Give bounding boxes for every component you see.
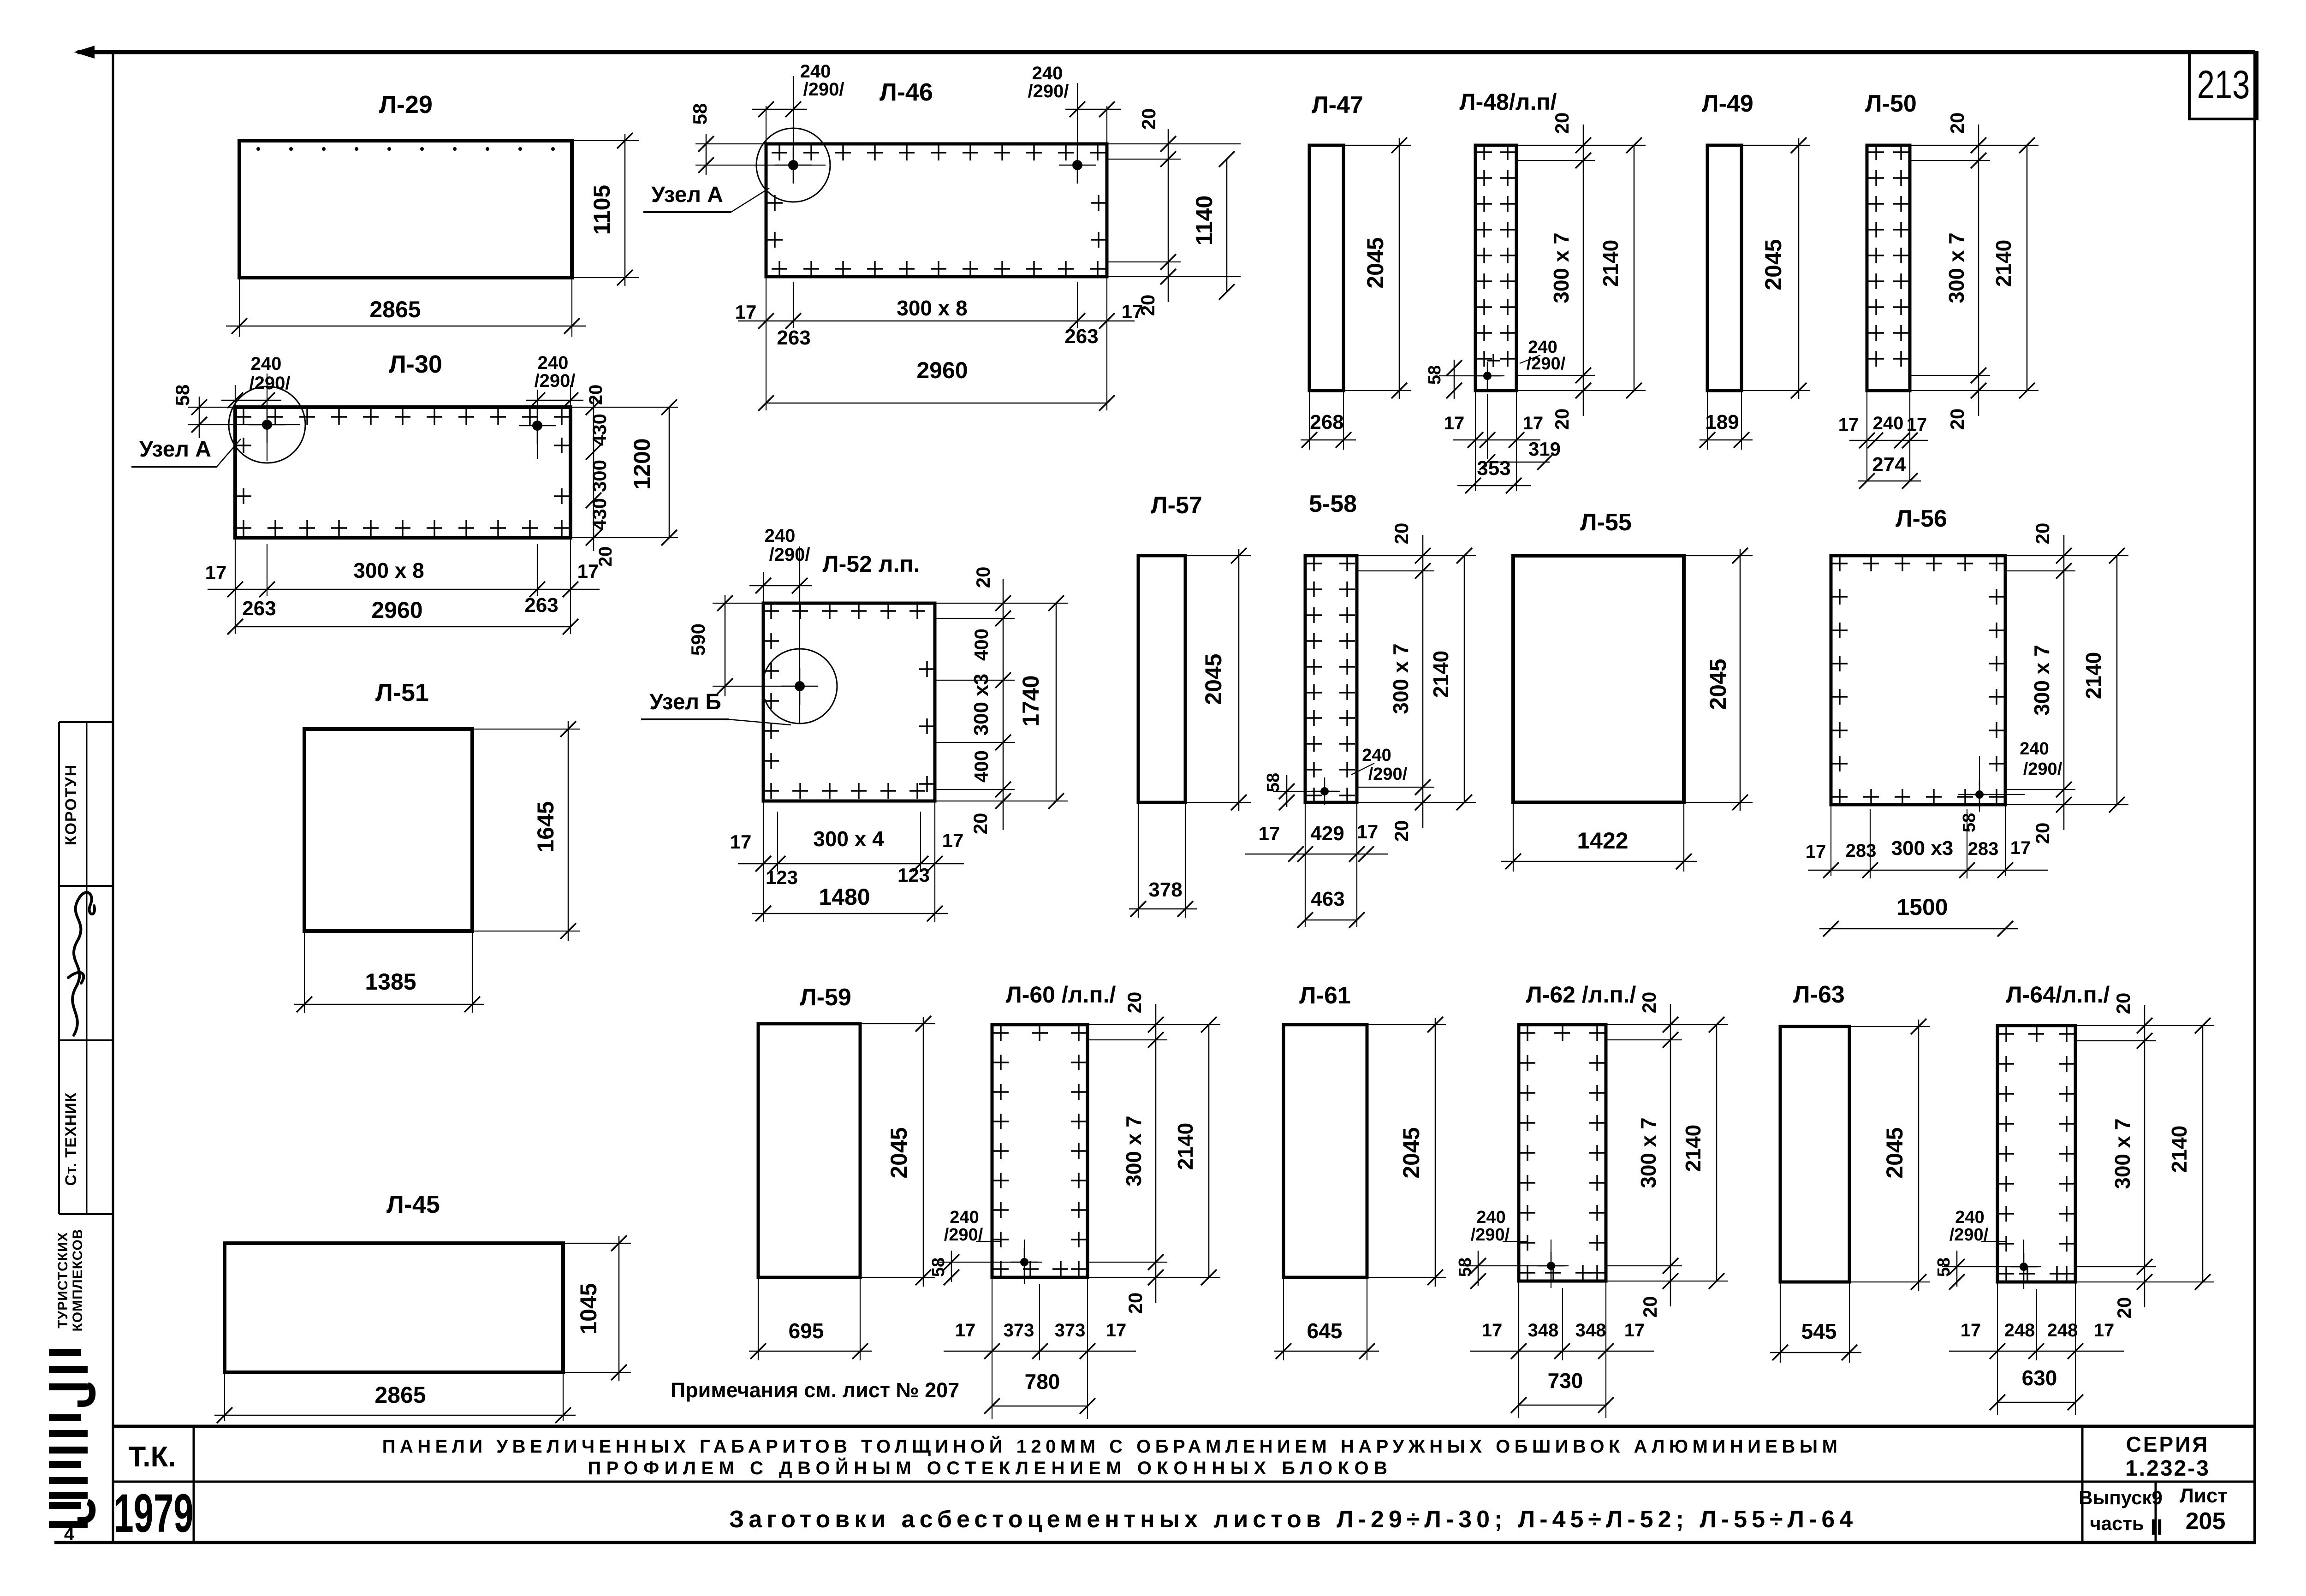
svg-text:17: 17 bbox=[1444, 413, 1465, 433]
svg-text:ПРОФИЛЕМ С ДВОЙНЫМ ОСТЕКЛЕНИЕМ: ПРОФИЛЕМ С ДВОЙНЫМ ОСТЕКЛЕНИЕМ ОКОННЫХ Б… bbox=[588, 1457, 1392, 1478]
svg-text:58: 58 bbox=[689, 103, 711, 125]
svg-text:300: 300 bbox=[588, 460, 610, 492]
svg-text:КОРОТУН: КОРОТУН bbox=[62, 764, 80, 845]
svg-text:463: 463 bbox=[1311, 888, 1344, 910]
svg-text:Л-46: Л-46 bbox=[880, 78, 933, 106]
svg-text:ТУРИСТСКИХ: ТУРИСТСКИХ bbox=[55, 1232, 71, 1328]
svg-text:Л-52 л.п.: Л-52 л.п. bbox=[823, 551, 920, 577]
svg-text:Л-61: Л-61 bbox=[1299, 982, 1351, 1009]
svg-text:590: 590 bbox=[687, 623, 709, 656]
svg-text:240: 240 bbox=[538, 353, 569, 373]
svg-text:429: 429 bbox=[1310, 822, 1344, 845]
svg-text:630: 630 bbox=[2022, 1366, 2057, 1390]
svg-text:1105: 1105 bbox=[589, 185, 615, 235]
svg-text:17: 17 bbox=[1806, 842, 1826, 862]
svg-text:205: 205 bbox=[2186, 1508, 2226, 1535]
svg-text:17: 17 bbox=[735, 301, 757, 323]
svg-text:263: 263 bbox=[1064, 325, 1098, 348]
svg-text:/290/: /290/ bbox=[769, 545, 810, 565]
svg-text:/290/: /290/ bbox=[1527, 354, 1566, 374]
svg-text:17: 17 bbox=[1961, 1320, 1981, 1341]
svg-text:348: 348 bbox=[1575, 1320, 1606, 1341]
svg-text:20: 20 bbox=[1551, 409, 1573, 430]
svg-text:1645: 1645 bbox=[533, 801, 559, 852]
svg-text:123: 123 bbox=[766, 866, 798, 888]
svg-text:58: 58 bbox=[172, 385, 193, 406]
svg-text:695: 695 bbox=[789, 1319, 824, 1343]
svg-text:2865: 2865 bbox=[374, 1382, 426, 1408]
svg-text:Л-48/л.п/: Л-48/л.п/ bbox=[1460, 89, 1557, 115]
svg-text:2140: 2140 bbox=[2167, 1126, 2191, 1173]
svg-text:КОМПЛЕКСОВ: КОМПЛЕКСОВ bbox=[70, 1228, 85, 1331]
svg-text:2045: 2045 bbox=[1705, 659, 1731, 710]
svg-text:58: 58 bbox=[1425, 365, 1444, 385]
svg-text:58: 58 bbox=[1264, 773, 1283, 792]
svg-text:240: 240 bbox=[765, 526, 796, 546]
svg-text:Л-57: Л-57 bbox=[1151, 492, 1202, 519]
svg-text:240: 240 bbox=[950, 1208, 979, 1227]
svg-text:300 х 7: 300 х 7 bbox=[1549, 232, 1573, 303]
svg-text:2140: 2140 bbox=[1599, 240, 1623, 287]
svg-text:/290/: /290/ bbox=[535, 371, 576, 391]
svg-text:20: 20 bbox=[1946, 409, 1968, 430]
svg-text:2960: 2960 bbox=[916, 357, 968, 383]
svg-text:1740: 1740 bbox=[1018, 675, 1044, 726]
svg-text:/290/: /290/ bbox=[1028, 81, 1069, 101]
svg-text:263: 263 bbox=[524, 594, 558, 617]
svg-text:2045: 2045 bbox=[1760, 239, 1786, 290]
svg-text:Узел А: Узел А bbox=[139, 437, 211, 462]
svg-text:20: 20 bbox=[1123, 992, 1145, 1014]
svg-text:Л-30: Л-30 bbox=[389, 350, 442, 378]
svg-text:Заготовки асбестоцементных лис: Заготовки асбестоцементных листов Л-29÷Л… bbox=[729, 1506, 1857, 1533]
svg-text:5-58: 5-58 bbox=[1309, 491, 1357, 517]
svg-text:645: 645 bbox=[1307, 1319, 1343, 1343]
svg-text:248: 248 bbox=[2004, 1320, 2035, 1341]
svg-text:17: 17 bbox=[1106, 1320, 1127, 1341]
svg-text:2140: 2140 bbox=[2081, 652, 2105, 699]
svg-text:Выпуск9: Выпуск9 bbox=[2079, 1487, 2163, 1508]
svg-text:300 х 8: 300 х 8 bbox=[897, 296, 967, 320]
svg-text:20: 20 bbox=[595, 546, 616, 567]
svg-text:1500: 1500 bbox=[1896, 894, 1948, 920]
svg-text:58: 58 bbox=[1960, 813, 1979, 832]
svg-text:Л-56: Л-56 bbox=[1896, 505, 1947, 532]
svg-text:20: 20 bbox=[2112, 993, 2134, 1015]
svg-text:268: 268 bbox=[1310, 411, 1343, 433]
svg-text:263: 263 bbox=[777, 326, 810, 349]
svg-text:17: 17 bbox=[1907, 415, 1927, 435]
svg-text:213: 213 bbox=[2197, 63, 2250, 107]
svg-text:300 х 7: 300 х 7 bbox=[1122, 1115, 1146, 1186]
svg-text:1480: 1480 bbox=[819, 884, 870, 910]
svg-text:Ст. ТЕХНИК: Ст. ТЕХНИК bbox=[62, 1092, 80, 1186]
svg-text:17: 17 bbox=[1624, 1320, 1645, 1341]
svg-text:20: 20 bbox=[1391, 820, 1412, 842]
svg-text:1979: 1979 bbox=[113, 1483, 193, 1544]
svg-text:2140: 2140 bbox=[1173, 1123, 1197, 1170]
svg-text:Лист: Лист bbox=[2180, 1484, 2228, 1507]
svg-text:240: 240 bbox=[251, 354, 282, 374]
svg-text:Л-45: Л-45 bbox=[386, 1191, 440, 1218]
svg-text:17: 17 bbox=[205, 562, 227, 583]
svg-text:283: 283 bbox=[1968, 839, 1999, 859]
svg-text:17: 17 bbox=[1523, 413, 1544, 433]
svg-text:240: 240 bbox=[1476, 1208, 1505, 1227]
svg-text:Л-49: Л-49 bbox=[1702, 90, 1753, 117]
svg-text:17: 17 bbox=[1838, 415, 1859, 435]
svg-text:17: 17 bbox=[2094, 1320, 2115, 1341]
svg-text:2140: 2140 bbox=[1681, 1125, 1705, 1172]
svg-text:20: 20 bbox=[972, 567, 994, 588]
svg-text:1422: 1422 bbox=[1577, 828, 1628, 854]
svg-text:Примечания см. лист № 207: Примечания см. лист № 207 bbox=[671, 1378, 959, 1402]
svg-text:2140: 2140 bbox=[1429, 651, 1453, 698]
svg-text:1200: 1200 bbox=[629, 438, 655, 489]
svg-text:/290/: /290/ bbox=[803, 79, 844, 100]
svg-text:300 х 7: 300 х 7 bbox=[2030, 645, 2054, 715]
svg-text:1.232-3: 1.232-3 bbox=[2125, 1456, 2210, 1481]
svg-text:ПАНЕЛИ УВЕЛИЧЕННЫХ ГАБАРИТОВ Т: ПАНЕЛИ УВЕЛИЧЕННЫХ ГАБАРИТОВ ТОЛЩИНОЙ 12… bbox=[382, 1436, 1842, 1457]
svg-text:17: 17 bbox=[1259, 823, 1280, 844]
svg-text:2045: 2045 bbox=[886, 1127, 912, 1178]
svg-text:373: 373 bbox=[1055, 1320, 1086, 1341]
svg-text:20: 20 bbox=[586, 385, 606, 405]
svg-text:17: 17 bbox=[1482, 1320, 1503, 1341]
svg-text:1045: 1045 bbox=[576, 1283, 601, 1334]
svg-text:Л-55: Л-55 bbox=[1580, 509, 1632, 536]
svg-text:780: 780 bbox=[1025, 1370, 1060, 1394]
svg-text:248: 248 bbox=[2047, 1320, 2078, 1341]
svg-text:1385: 1385 bbox=[365, 969, 416, 995]
svg-text:/290/: /290/ bbox=[1368, 765, 1408, 784]
svg-text:240: 240 bbox=[1955, 1208, 1984, 1227]
svg-text:2045: 2045 bbox=[1398, 1127, 1424, 1178]
svg-text:274: 274 bbox=[1872, 453, 1906, 476]
svg-text:189: 189 bbox=[1705, 411, 1739, 433]
svg-text:17: 17 bbox=[730, 831, 752, 853]
svg-text:2865: 2865 bbox=[369, 297, 421, 322]
svg-text:СЕРИЯ: СЕРИЯ bbox=[2126, 1432, 2210, 1456]
svg-text:Л-50: Л-50 bbox=[1865, 90, 1917, 117]
svg-text:400: 400 bbox=[970, 750, 992, 783]
svg-text:20: 20 bbox=[1391, 523, 1412, 545]
svg-text:2045: 2045 bbox=[1882, 1127, 1908, 1178]
svg-text:300 х 8: 300 х 8 bbox=[353, 558, 424, 582]
svg-text:17: 17 bbox=[1357, 821, 1379, 842]
svg-text:20: 20 bbox=[1138, 108, 1159, 130]
svg-text:2045: 2045 bbox=[1362, 237, 1388, 288]
svg-text:58: 58 bbox=[1456, 1258, 1475, 1277]
svg-text:Узел Б: Узел Б bbox=[649, 690, 721, 714]
svg-text:20: 20 bbox=[2032, 523, 2053, 545]
svg-text:17: 17 bbox=[955, 1320, 976, 1341]
svg-text:353: 353 bbox=[1477, 457, 1510, 480]
svg-text:Л-29: Л-29 bbox=[379, 91, 433, 119]
svg-text:300 х 7: 300 х 7 bbox=[1636, 1117, 1660, 1188]
svg-text:2045: 2045 bbox=[1201, 653, 1226, 705]
svg-text:20: 20 bbox=[1124, 1293, 1146, 1314]
svg-text:1140: 1140 bbox=[1191, 196, 1217, 245]
svg-text:430: 430 bbox=[588, 414, 610, 446]
svg-text:123: 123 bbox=[897, 864, 930, 886]
svg-text:319: 319 bbox=[1528, 438, 1561, 460]
svg-text:Т.К.: Т.К. bbox=[128, 1441, 176, 1473]
svg-text:20: 20 bbox=[2032, 823, 2053, 844]
svg-text:20: 20 bbox=[1638, 992, 1660, 1014]
svg-text:240: 240 bbox=[800, 61, 831, 82]
svg-text:240: 240 bbox=[2020, 739, 2049, 759]
svg-text:II: II bbox=[2151, 1515, 2163, 1540]
svg-text:/290/: /290/ bbox=[2023, 759, 2062, 779]
svg-text:240: 240 bbox=[1032, 63, 1063, 83]
svg-text:20: 20 bbox=[969, 813, 991, 835]
svg-text:Л-59: Л-59 bbox=[800, 984, 851, 1011]
svg-text:300 х3: 300 х3 bbox=[1891, 837, 1954, 860]
svg-text:4: 4 bbox=[64, 1524, 75, 1544]
svg-text:20: 20 bbox=[1639, 1296, 1661, 1318]
svg-text:часть: часть bbox=[2090, 1513, 2144, 1534]
svg-text:Л-60 /л.п./: Л-60 /л.п./ bbox=[1006, 982, 1116, 1008]
svg-text:20: 20 bbox=[2113, 1297, 2135, 1319]
svg-text:300 х3: 300 х3 bbox=[970, 674, 993, 736]
svg-text:300 х 7: 300 х 7 bbox=[2110, 1118, 2134, 1189]
svg-text:400: 400 bbox=[970, 629, 992, 661]
svg-text:Л-64/л.п./: Л-64/л.п./ bbox=[2006, 982, 2110, 1008]
svg-text:300 х 4: 300 х 4 bbox=[813, 827, 884, 851]
svg-text:240: 240 bbox=[1873, 413, 1904, 433]
svg-text:300 х 7: 300 х 7 bbox=[1944, 232, 1968, 303]
svg-text:283: 283 bbox=[1846, 841, 1877, 861]
svg-text:545: 545 bbox=[1801, 1319, 1837, 1343]
svg-text:/290/: /290/ bbox=[250, 373, 291, 393]
svg-text:263: 263 bbox=[242, 597, 276, 620]
svg-text:373: 373 bbox=[1004, 1320, 1034, 1341]
svg-text:300 х 7: 300 х 7 bbox=[1389, 643, 1413, 714]
svg-text:348: 348 bbox=[1528, 1320, 1559, 1341]
svg-text:240: 240 bbox=[1362, 746, 1391, 765]
svg-text:20: 20 bbox=[1137, 295, 1159, 316]
svg-text:17: 17 bbox=[942, 830, 964, 851]
svg-text:Л-63: Л-63 bbox=[1793, 981, 1845, 1008]
svg-text:Узел А: Узел А bbox=[651, 183, 723, 207]
svg-text:20: 20 bbox=[1551, 113, 1573, 134]
svg-text:378: 378 bbox=[1148, 878, 1182, 901]
svg-text:Л-51: Л-51 bbox=[375, 679, 429, 706]
svg-text:20: 20 bbox=[1946, 113, 1968, 134]
svg-text:2140: 2140 bbox=[1991, 240, 2015, 287]
svg-text:17: 17 bbox=[2010, 838, 2031, 858]
svg-text:Л-62 /л.п./: Л-62 /л.п./ bbox=[1526, 982, 1636, 1008]
svg-text:730: 730 bbox=[1548, 1369, 1583, 1393]
svg-text:2960: 2960 bbox=[371, 597, 422, 623]
svg-text:430: 430 bbox=[588, 498, 610, 530]
svg-text:Л-47: Л-47 bbox=[1312, 92, 1363, 119]
